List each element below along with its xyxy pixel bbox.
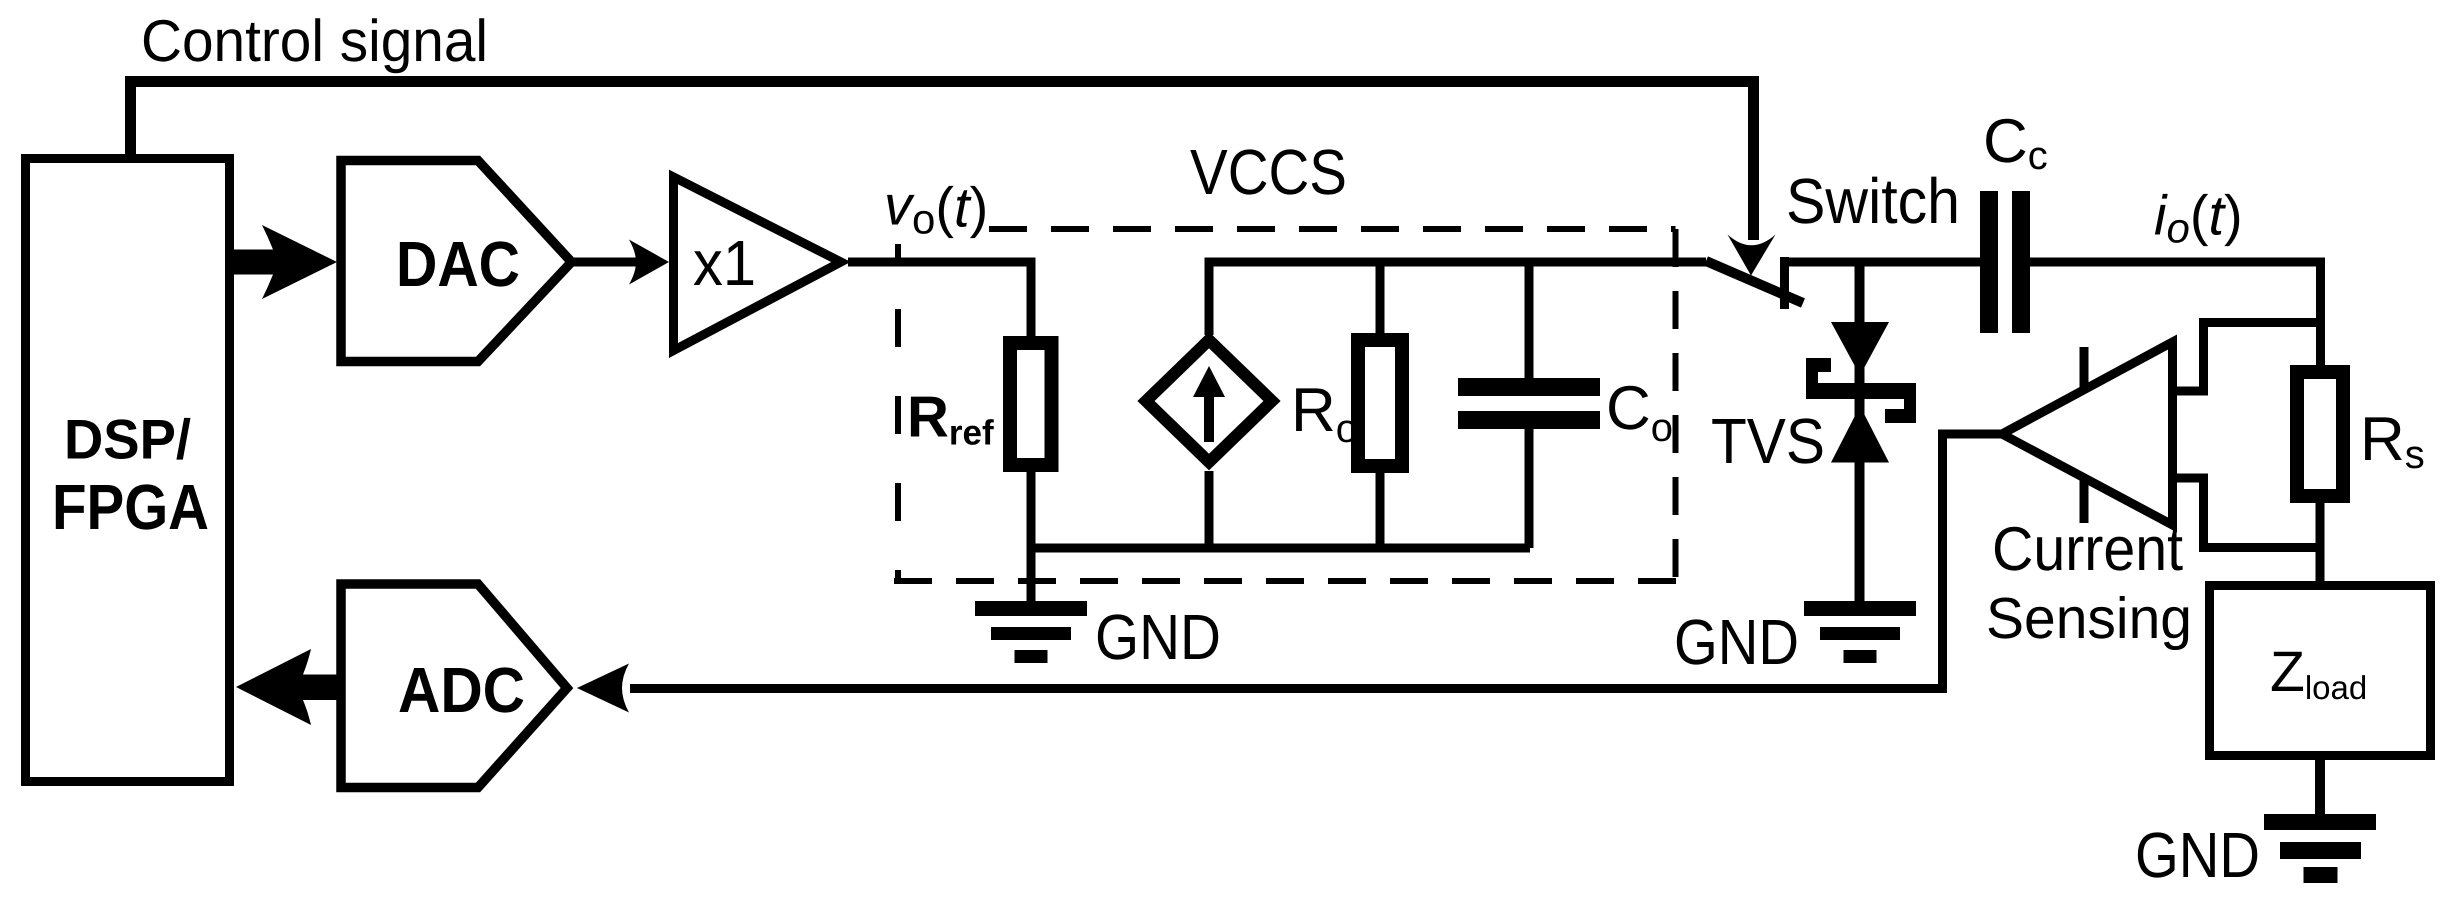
wire VCCS top rail [1205, 258, 1707, 267]
switch arm [1706, 261, 1803, 303]
svg-text:DAC: DAC [396, 228, 520, 300]
wire control signal polyline [131, 82, 1754, 241]
ground GND under TVS [1804, 601, 1916, 663]
arrowhead control to switch [1728, 235, 1776, 276]
wire amp bottom input to Rs bottom [2172, 478, 2320, 548]
resistor Rs [2297, 372, 2343, 496]
svg-text:Sensing: Sensing [1986, 586, 2192, 651]
wire Rs to Zload [2316, 496, 2325, 585]
svg-text:GND: GND [1095, 601, 1221, 673]
wire x1 to Rref [848, 262, 1031, 343]
capacitor Co [1458, 262, 1600, 548]
svg-text:VCCS: VCCS [1190, 136, 1347, 208]
svg-text:GND: GND [1674, 606, 1799, 678]
block ADC [341, 584, 567, 788]
diode TVS bidirectional [1806, 262, 1916, 601]
svg-text:Current: Current [1992, 515, 2183, 584]
wire Cc to corner and down to Rs [2030, 262, 2321, 372]
wire amp output to ADC [630, 434, 2002, 689]
ground GND under Zload [2264, 814, 2376, 883]
svg-text:ADC: ADC [398, 654, 525, 726]
svg-text:FPGA: FPGA [52, 471, 209, 543]
wire VCCS bottom rail [1027, 544, 1531, 553]
svg-text:Switch: Switch [1786, 165, 1960, 237]
wire amp top input to Rs top [2172, 323, 2320, 392]
block DSP/FPGA [26, 159, 230, 782]
resistor Ro [1358, 262, 1402, 548]
current source dependent [1146, 262, 1272, 548]
VCCS dashed box [894, 229, 1678, 583]
svg-text:x1: x1 [693, 227, 756, 299]
capacitor Cc [1980, 191, 2030, 333]
wire DAC to x1 [571, 258, 636, 267]
resistor Rref [1010, 343, 1052, 465]
svg-text:TVS: TVS [1711, 405, 1825, 477]
arrowhead DAC to x1 [629, 240, 669, 285]
ground GND under Rref [975, 601, 1087, 663]
block Zload [2210, 586, 2431, 756]
wire thick arrow DSP to DAC [234, 225, 337, 299]
svg-text:Control signal: Control signal [141, 8, 488, 74]
block DAC [341, 161, 572, 362]
svg-text:vo(t): vo(t) [884, 174, 988, 243]
arrowhead into ADC [577, 664, 629, 713]
wire thick arrow ADC to DSP [236, 649, 342, 725]
svg-text:GND: GND [2135, 819, 2260, 891]
wire switch to Cc [1780, 258, 1981, 267]
switch right contact [1780, 257, 1789, 309]
op-amp x1 buffer [674, 177, 842, 351]
svg-text:DSP/: DSP/ [64, 408, 191, 471]
op-amp current sensing [2002, 342, 2173, 525]
wire Rref to ground rail [1027, 465, 1036, 601]
wire Zload to ground [2315, 760, 2325, 815]
